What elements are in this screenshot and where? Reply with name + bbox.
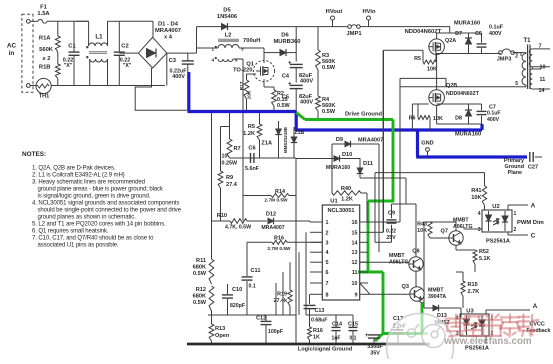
svg-text:1.2K: 1.2K: [341, 197, 353, 203]
svg-text:2: 2: [514, 227, 517, 233]
svg-text:Plane: Plane: [508, 170, 522, 176]
svg-text:4: 4: [326, 250, 329, 256]
svg-text:10K: 10K: [433, 116, 443, 122]
svg-text:GND: GND: [421, 141, 433, 147]
svg-text:MRA4007: MRA4007: [261, 225, 284, 231]
svg-text:C1: C1: [68, 44, 76, 50]
svg-text:R11: R11: [196, 258, 206, 264]
svg-text:400V: 400V: [300, 100, 313, 106]
svg-text:1.2K: 1.2K: [243, 131, 255, 137]
svg-text:A06LTG: A06LTG: [389, 260, 409, 266]
svg-text:1: 1: [514, 211, 517, 217]
svg-text:7: 7: [539, 44, 542, 50]
svg-text:Z1B: Z1B: [295, 130, 305, 136]
svg-text:3904TA: 3904TA: [428, 294, 446, 300]
svg-text:0.1: 0.1: [350, 336, 357, 342]
svg-text:D10: D10: [342, 152, 352, 158]
svg-text:3: 3: [478, 227, 481, 233]
svg-text:R15: R15: [468, 282, 478, 288]
svg-text:2.7K: 2.7K: [468, 289, 480, 295]
svg-text:820pF: 820pF: [230, 303, 245, 309]
svg-text:4: 4: [211, 58, 214, 63]
svg-text:D6: D6: [281, 33, 289, 39]
svg-text:5. L2 and T1 are PQ2020 cores: 5. L2 and T1 are PQ2020 cores with 14 pi…: [32, 222, 166, 228]
svg-text:15: 15: [352, 230, 358, 236]
svg-text:9: 9: [355, 292, 358, 298]
svg-text:D11: D11: [363, 161, 373, 167]
svg-text:R13: R13: [215, 326, 225, 332]
svg-text:MRA4007: MRA4007: [358, 138, 383, 144]
svg-text:D7: D7: [455, 31, 462, 37]
svg-text:should be single-point connect: should be single-point connected to the …: [38, 208, 182, 214]
svg-text:C: C: [531, 233, 536, 240]
svg-text:+: +: [288, 61, 292, 67]
svg-text:0.25W: 0.25W: [222, 161, 238, 167]
svg-text:Q7: Q7: [441, 229, 448, 235]
svg-text:0.5W: 0.5W: [193, 271, 207, 277]
svg-text:R16: R16: [274, 235, 284, 241]
svg-text:R40: R40: [341, 186, 351, 192]
svg-text:R5: R5: [414, 56, 421, 62]
svg-text:11: 11: [352, 270, 358, 276]
svg-text:5.6nF: 5.6nF: [245, 166, 260, 172]
svg-text:C6: C6: [248, 146, 255, 152]
svg-text:2: 2: [326, 230, 329, 236]
svg-text:1. Q2A, Q2B are D-Pak devices.: 1. Q2A, Q2B are D-Pak devices.: [32, 166, 116, 172]
svg-text:"X": "X": [64, 63, 73, 69]
svg-text:1nF: 1nF: [332, 336, 341, 342]
svg-text:R41: R41: [471, 188, 481, 194]
svg-text:Q2A: Q2A: [445, 38, 456, 44]
svg-text:R1B: R1B: [39, 65, 51, 71]
svg-text:10K: 10K: [417, 228, 427, 234]
svg-text:680K: 680K: [193, 294, 206, 300]
svg-text:C6: C6: [475, 31, 482, 37]
svg-text:400V: 400V: [489, 31, 502, 37]
svg-text:JMP1: JMP1: [346, 31, 362, 37]
svg-text:2: 2: [515, 54, 518, 60]
svg-text:x 4: x 4: [164, 35, 173, 41]
svg-text:2.7M 0.5W: 2.7M 0.5W: [267, 246, 291, 252]
svg-text:0.1uF: 0.1uF: [489, 25, 504, 31]
svg-text:10K: 10K: [427, 67, 437, 73]
svg-text:1: 1: [326, 220, 329, 226]
svg-text:ground plane areas - blue is p: ground plane areas - blue is power groun…: [38, 187, 164, 193]
svg-text:R14: R14: [275, 189, 285, 195]
svg-text:www.elecfans.com: www.elecfans.com: [443, 336, 532, 347]
svg-text:MMBT: MMBT: [453, 218, 469, 224]
svg-text:NOTES:: NOTES:: [22, 151, 46, 158]
svg-text:14: 14: [352, 240, 358, 246]
svg-text:Open: Open: [215, 333, 230, 339]
svg-text:C2: C2: [121, 44, 128, 50]
svg-text:27.4: 27.4: [226, 182, 238, 188]
svg-text:5.1K: 5.1K: [479, 256, 490, 262]
svg-text:MRA4007: MRA4007: [155, 28, 181, 34]
svg-text:680K: 680K: [193, 265, 206, 271]
svg-text:7: 7: [326, 281, 329, 287]
svg-text:D12: D12: [266, 212, 276, 218]
svg-text:PS2561A: PS2561A: [486, 239, 510, 245]
svg-text:"X": "X": [123, 63, 132, 69]
svg-text:U1: U1: [330, 199, 338, 205]
svg-text:D5: D5: [223, 8, 231, 14]
svg-text:R17: R17: [239, 81, 245, 90]
svg-text:C9: C9: [388, 211, 395, 217]
svg-text:L2: L2: [225, 33, 232, 39]
svg-text:U3: U3: [466, 309, 474, 315]
svg-text:R43: R43: [417, 222, 427, 228]
svg-text:R52: R52: [479, 249, 489, 255]
svg-text:10: 10: [540, 65, 546, 71]
svg-text:16: 16: [352, 220, 358, 226]
svg-text:0.5W: 0.5W: [322, 109, 336, 115]
svg-text:R5: R5: [248, 124, 255, 130]
svg-text:Z1A: Z1A: [261, 141, 272, 147]
svg-text:400V: 400V: [487, 117, 500, 123]
svg-text:4. NCL30051 signal grounds and: 4. NCL30051 signal grounds and associate…: [32, 201, 179, 207]
svg-text:TO-220: TO-220: [233, 68, 253, 74]
svg-text:Q2B: Q2B: [446, 83, 457, 89]
svg-text:ground planes as shown in sche: ground planes as shown in schematic.: [38, 215, 137, 221]
svg-text:JMP3: JMP3: [497, 57, 512, 63]
svg-text:6: 6: [235, 58, 238, 63]
svg-text:F1: F1: [40, 5, 48, 11]
svg-text:C27: C27: [528, 165, 538, 171]
svg-text:C15: C15: [348, 322, 358, 328]
svg-text:560K: 560K: [39, 47, 54, 53]
svg-text:R9: R9: [226, 175, 233, 181]
svg-text:3: 3: [241, 47, 244, 52]
svg-text:+: +: [365, 333, 369, 339]
svg-text:C11: C11: [251, 268, 261, 274]
svg-text:1K: 1K: [313, 335, 320, 341]
svg-text:HVin: HVin: [362, 9, 376, 15]
svg-text:400V: 400V: [172, 74, 185, 80]
svg-text:R12: R12: [196, 287, 206, 293]
svg-text:R7: R7: [234, 146, 241, 152]
svg-text:5: 5: [326, 260, 329, 266]
svg-text:T1: T1: [523, 38, 531, 44]
svg-text:PWM Dim: PWM Dim: [517, 220, 544, 226]
svg-text:0.5W: 0.5W: [193, 300, 207, 306]
svg-text:D9: D9: [336, 137, 343, 143]
svg-text:10K: 10K: [471, 195, 481, 201]
svg-text:100pF: 100pF: [268, 329, 283, 335]
svg-text:NCL30051: NCL30051: [327, 208, 354, 214]
svg-text:7. C10, C17, and Q7/R40 should: 7. C10, C17, and Q7/R40 should be as clo…: [32, 236, 154, 242]
svg-text:NDD04N60ZT: NDD04N60ZT: [446, 91, 480, 97]
svg-text:MMBT: MMBT: [389, 253, 405, 259]
svg-text:R19: R19: [277, 292, 287, 298]
svg-text:MURA160: MURA160: [454, 21, 480, 27]
svg-text:10: 10: [352, 281, 358, 287]
svg-text:C3: C3: [169, 58, 177, 64]
svg-text:10: 10: [222, 154, 228, 160]
svg-text:associated U1 pins as possible: associated U1 pins as possible.: [38, 243, 119, 249]
svg-text:AC: AC: [7, 43, 17, 50]
svg-text:MURA160: MURA160: [455, 132, 481, 138]
svg-text:0.5W: 0.5W: [322, 65, 336, 71]
svg-text:400V: 400V: [300, 79, 313, 85]
svg-text:13: 13: [352, 250, 358, 256]
svg-text:R1A: R1A: [39, 36, 51, 42]
svg-text:C13: C13: [315, 308, 325, 314]
svg-text:D1 - D4: D1 - D4: [158, 22, 179, 28]
svg-text:700uH: 700uH: [243, 38, 260, 44]
svg-text:R16: R16: [313, 328, 323, 334]
svg-text:MURA160: MURA160: [326, 165, 350, 171]
svg-text:MMSZ5248B: MMSZ5248B: [283, 127, 288, 153]
svg-text:35V: 35V: [370, 351, 380, 357]
svg-text:2.7M 0.5W: 2.7M 0.5W: [264, 198, 288, 204]
svg-text:4: 4: [478, 211, 481, 217]
svg-text:6: 6: [326, 270, 329, 276]
svg-text:C4: C4: [282, 74, 290, 80]
svg-text:A: A: [533, 303, 538, 310]
svg-text:14: 14: [539, 88, 545, 94]
svg-text:Q3: Q3: [402, 284, 409, 290]
svg-text:C14: C14: [332, 322, 342, 328]
svg-text:12: 12: [352, 260, 358, 266]
svg-text:0.22: 0.22: [386, 229, 396, 235]
svg-text:is signal/logic ground, green: is signal/logic ground, green is drive g…: [38, 194, 151, 200]
svg-text:5: 5: [515, 81, 518, 87]
svg-text:MMBT: MMBT: [428, 288, 444, 294]
svg-text:x 2: x 2: [42, 56, 50, 62]
svg-text:8: 8: [326, 292, 329, 298]
svg-text:0.1: 0.1: [249, 284, 256, 290]
svg-text:2. L1 is Coilcraft E3492-AL (2: 2. L1 is Coilcraft E3492-AL (2.9 mH): [32, 173, 125, 179]
svg-text:D8: D8: [455, 116, 462, 122]
svg-text:C12: C12: [256, 316, 266, 322]
svg-text:25V: 25V: [386, 235, 396, 241]
svg-text:HVout: HVout: [326, 9, 343, 15]
svg-text:1: 1: [211, 47, 214, 52]
svg-text:TH1: TH1: [39, 94, 50, 100]
svg-text:Drive Ground: Drive Ground: [345, 112, 382, 118]
svg-text:R10: R10: [217, 213, 227, 219]
svg-text:C10: C10: [232, 287, 242, 293]
svg-text:L1: L1: [95, 34, 103, 41]
svg-text:in: in: [9, 50, 15, 57]
svg-text:C5: C5: [282, 95, 289, 101]
svg-text:1N5406: 1N5406: [217, 14, 238, 20]
svg-text:0.68uF: 0.68uF: [311, 318, 327, 324]
svg-text:0.1uF: 0.1uF: [487, 111, 501, 117]
svg-text:1.5A: 1.5A: [37, 11, 50, 17]
svg-text:U2: U2: [492, 204, 499, 210]
svg-text:10K: 10K: [247, 90, 253, 99]
svg-text:A: A: [531, 203, 536, 210]
svg-text:0.5W: 0.5W: [277, 103, 290, 109]
svg-text:6. Q1 requires small heatsink.: 6. Q1 requires small heatsink.: [32, 229, 109, 235]
svg-text:3: 3: [326, 240, 329, 246]
svg-text:3. Heavy schematic lines are r: 3. Heavy schematic lines are recommended: [32, 180, 145, 186]
svg-text:11: 11: [540, 77, 546, 83]
svg-text:4.7K, 0.5W: 4.7K, 0.5W: [225, 225, 251, 231]
svg-text:+: +: [288, 82, 292, 88]
svg-text:Logic/signal Ground: Logic/signal Ground: [298, 347, 353, 353]
